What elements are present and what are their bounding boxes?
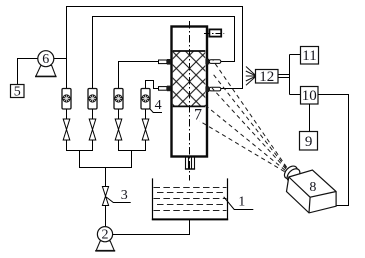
svg-text:12: 12 xyxy=(259,69,274,85)
svg-text:10: 10 xyxy=(302,88,317,104)
svg-text:5: 5 xyxy=(14,84,21,99)
svg-text:9: 9 xyxy=(305,134,313,150)
svg-text:8: 8 xyxy=(309,180,316,195)
svg-text:11: 11 xyxy=(302,48,316,64)
svg-text:6: 6 xyxy=(42,52,49,67)
svg-text:3: 3 xyxy=(121,188,128,203)
svg-text:2: 2 xyxy=(102,228,109,243)
svg-text:4: 4 xyxy=(155,98,162,113)
svg-text:1: 1 xyxy=(238,195,245,210)
svg-text:7: 7 xyxy=(194,107,202,124)
